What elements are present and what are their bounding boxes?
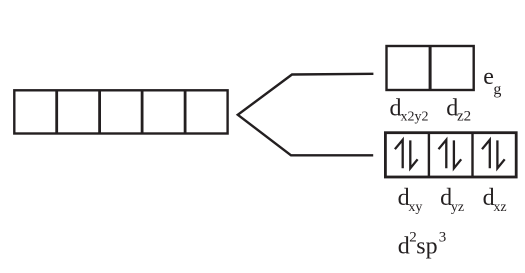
svg-text:e: e [483,64,494,90]
svg-text:sp: sp [416,233,437,259]
svg-text:z2: z2 [457,109,471,125]
svg-text:xz: xz [493,200,506,215]
svg-text:xy: xy [408,200,422,215]
svg-text:3: 3 [439,229,447,245]
svg-text:g: g [493,81,501,98]
svg-text:x2y2: x2y2 [401,110,429,125]
svg-text:d: d [398,233,410,259]
svg-text:yz: yz [451,200,464,215]
